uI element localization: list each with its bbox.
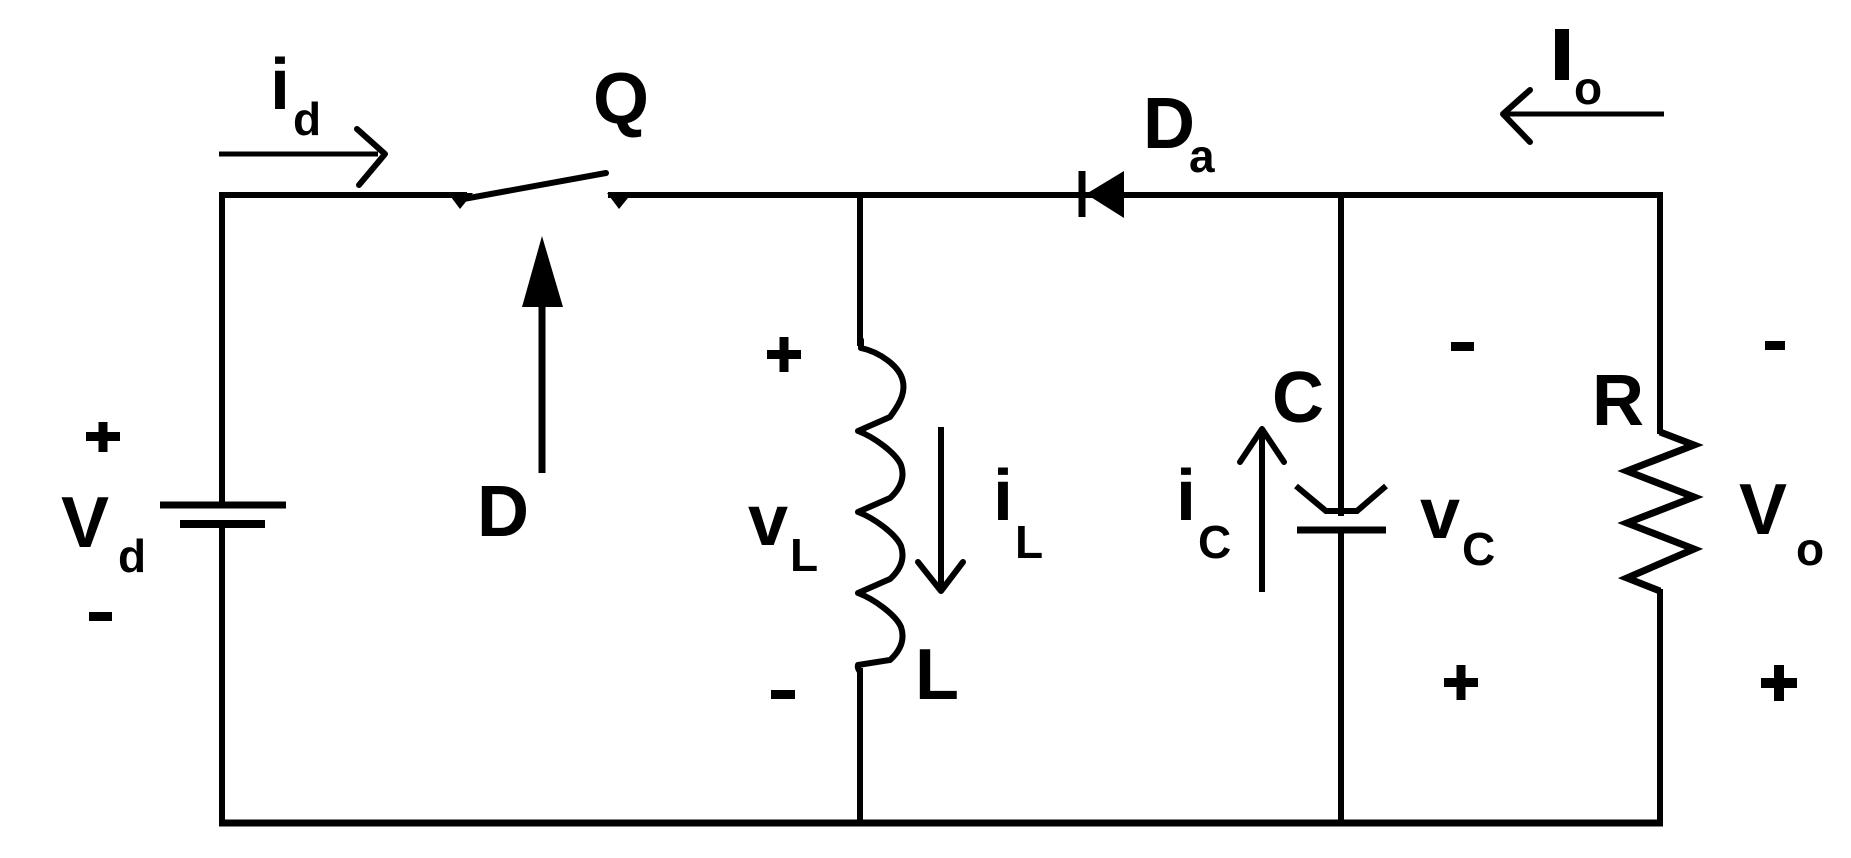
battery V_d long plate [160,502,286,509]
capacitor C bottom plate [1297,527,1386,534]
wire left vertical (top section, battery top lead) [219,192,225,505]
svg-text:L: L [790,529,818,581]
svg-text:D: D [477,472,529,552]
svg-text:a: a [1189,130,1215,182]
svg-text:L: L [1015,516,1043,568]
wire bottom rail [219,820,1663,827]
switch Q blade [458,173,606,200]
duty arrow D [539,300,546,473]
svg-text:Q: Q [593,59,649,139]
svg-text:V: V [1739,470,1787,550]
wire inductor top lead [857,192,863,346]
capacitor C top plate [1296,486,1386,511]
svg-text:d: d [293,93,321,145]
diode Da triangle [1086,171,1124,218]
wire right vertical bottom lead [1657,589,1663,826]
svg-text:L: L [915,635,959,715]
wire top right segment [608,192,1660,198]
svg-text:i: i [1176,456,1196,536]
switch Q right contact [607,193,632,209]
current arrow i_d [219,152,378,157]
wire capacitor bottom lead [1338,530,1344,826]
svg-text:i: i [270,45,290,125]
svg-text:d: d [118,530,146,582]
svg-text:C: C [1272,358,1324,438]
svg-text:D: D [1143,84,1195,164]
svg-text:o: o [1574,62,1602,114]
wire right vertical top lead [1657,192,1663,434]
wire inductor bottom lead [857,668,863,826]
svg-text:C: C [1462,523,1495,575]
svg-text:C: C [1198,516,1231,568]
wire top left segment [219,192,467,198]
resistor R zigzag [1627,432,1694,591]
V_o label + [1761,665,1797,701]
current arrow I_o [1506,112,1664,117]
svg-text:o: o [1796,523,1824,575]
current arrow i_L [938,427,944,588]
svg-text:R: R [1592,361,1644,441]
svg-text:i: i [993,456,1013,536]
switch Q left contact [448,193,473,209]
inductor label + [767,337,801,372]
svg-text:V: V [61,483,109,563]
inductor label - [771,690,795,699]
wire left vertical (bottom section, battery bottom lead) [219,524,225,826]
capacitor label - [1451,342,1474,351]
battery label - [89,612,112,621]
V_o label - [1765,341,1785,350]
battery label + [86,422,120,452]
svg-text:v: v [1420,474,1460,554]
capacitor label + [1444,665,1478,700]
inductor L coil [858,340,904,672]
battery V_d short plate [180,520,265,528]
current arrow i_C [1259,430,1265,592]
svg-text:v: v [748,481,788,561]
wire capacitor top lead [1338,192,1344,516]
diode Da cathode bar [1079,171,1086,217]
label I_o [1555,29,1569,80]
